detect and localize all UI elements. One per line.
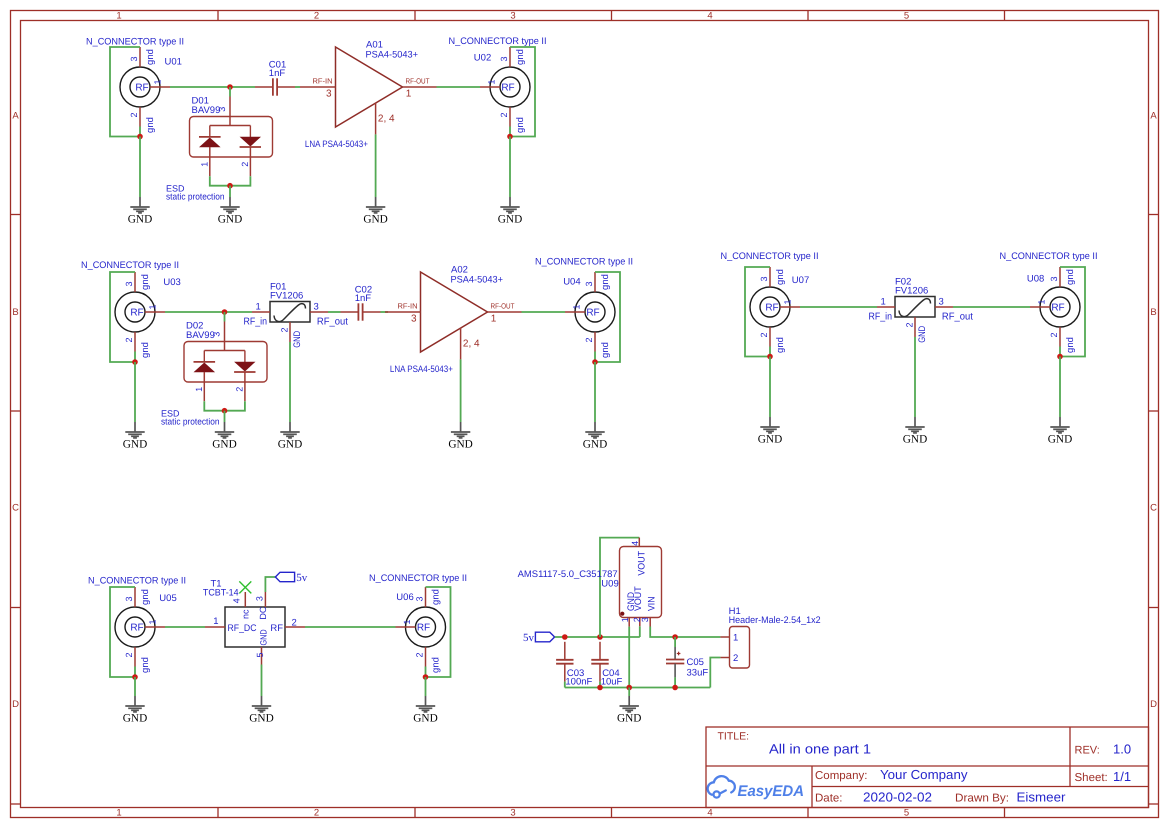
capacitor C01 (1nF) bbox=[255, 60, 295, 96]
svg-text:1: 1 bbox=[116, 11, 121, 22]
wire U03 to ground bbox=[134, 362, 136, 422]
svg-text:C: C bbox=[1150, 503, 1157, 514]
svg-text:static protection: static protection bbox=[161, 417, 220, 427]
svg-text:U07: U07 bbox=[792, 275, 809, 286]
wire U03 gnd loop bbox=[110, 272, 135, 362]
svg-text:RF-OUT: RF-OUT bbox=[406, 77, 430, 86]
svg-text:GND: GND bbox=[123, 712, 147, 724]
svg-text:gnd: gnd bbox=[600, 342, 611, 358]
svg-text:RF: RF bbox=[130, 623, 143, 634]
svg-text:1: 1 bbox=[148, 304, 158, 309]
svg-text:RF: RF bbox=[417, 623, 430, 634]
svg-text:A: A bbox=[1150, 111, 1157, 122]
svg-text:3: 3 bbox=[640, 617, 650, 622]
header H1 (Header-Male-2.54_1x2) bbox=[720, 606, 820, 668]
svg-text:GND: GND bbox=[258, 629, 268, 646]
svg-text:N_CONNECTOR type II: N_CONNECTOR type II bbox=[81, 260, 179, 271]
svg-text:1: 1 bbox=[881, 297, 886, 308]
ground A01 bbox=[363, 197, 387, 225]
svg-text:GND: GND bbox=[249, 712, 273, 724]
svg-text:1: 1 bbox=[213, 616, 218, 627]
svg-text:5v: 5v bbox=[296, 572, 308, 584]
svg-text:gnd: gnd bbox=[140, 589, 151, 605]
svg-text:2: 2 bbox=[129, 112, 139, 117]
svg-text:PSA4-5043+: PSA4-5043+ bbox=[451, 275, 504, 286]
wire D01 junction to ground bbox=[229, 186, 231, 197]
ground U02 bbox=[498, 197, 522, 225]
junction U04 pin2 node bbox=[592, 359, 598, 365]
net label ESD static protection bbox=[166, 184, 225, 202]
wire A01 pin2,4 to ground bbox=[375, 134, 377, 197]
svg-text:4: 4 bbox=[630, 541, 640, 546]
junction U09 GND bottom bbox=[626, 685, 632, 691]
wire C02 to A02 pin3 bbox=[381, 311, 389, 313]
svg-text:gnd: gnd bbox=[140, 342, 151, 358]
svg-text:1: 1 bbox=[1037, 299, 1047, 304]
ground T1 bbox=[249, 696, 273, 724]
svg-text:3: 3 bbox=[124, 596, 134, 601]
svg-text:gnd: gnd bbox=[775, 269, 786, 285]
svg-text:5: 5 bbox=[904, 808, 909, 819]
junction C03 top bbox=[562, 634, 568, 640]
svg-text:4: 4 bbox=[707, 11, 712, 22]
wire U05 to ground bbox=[134, 677, 136, 696]
svg-text:GND: GND bbox=[617, 712, 641, 724]
connector U02 (N_CONNECTOR type II) bbox=[449, 36, 547, 133]
svg-text:U06: U06 bbox=[396, 592, 413, 603]
svg-text:N_CONNECTOR type II: N_CONNECTOR type II bbox=[86, 37, 184, 48]
svg-text:33uF: 33uF bbox=[687, 668, 709, 679]
wire U02 to ground bbox=[509, 137, 511, 198]
svg-text:2: 2 bbox=[1049, 332, 1059, 337]
svg-text:3: 3 bbox=[415, 596, 425, 601]
svg-text:gnd: gnd bbox=[140, 274, 151, 290]
svg-text:FV1206: FV1206 bbox=[270, 291, 303, 302]
svg-text:C05: C05 bbox=[687, 657, 704, 668]
svg-text:U02: U02 bbox=[474, 53, 491, 64]
wire U05 pin1 to T1 bbox=[165, 626, 205, 628]
ground U08 bbox=[1048, 417, 1072, 445]
capacitor C03 (100nF) bbox=[556, 642, 592, 688]
connector U05 (N_CONNECTOR type II) bbox=[88, 576, 186, 673]
wire U05 gnd loop bbox=[110, 587, 135, 677]
svg-text:PSA4-5043+: PSA4-5043+ bbox=[366, 50, 419, 61]
svg-text:2, 4: 2, 4 bbox=[378, 114, 395, 125]
capacitor C05 (33uF polarized) bbox=[666, 647, 708, 679]
svg-text:FV1206: FV1206 bbox=[895, 286, 928, 297]
svg-text:RF_out: RF_out bbox=[317, 317, 348, 328]
svg-text:3: 3 bbox=[411, 314, 417, 325]
svg-text:1.0: 1.0 bbox=[1113, 742, 1131, 757]
fuse F02 (FV1206) bbox=[877, 277, 953, 343]
connector U04 (N_CONNECTOR type II) bbox=[535, 257, 633, 358]
svg-text:2: 2 bbox=[759, 332, 769, 337]
wire D01 bottom to junction bbox=[210, 176, 251, 186]
junction U02 pin2 node bbox=[507, 134, 513, 140]
svg-text:1: 1 bbox=[148, 619, 158, 624]
svg-text:TITLE:: TITLE: bbox=[718, 731, 750, 743]
wire A01 out to U02 bbox=[437, 86, 481, 88]
junction U05 pin2 node bbox=[132, 674, 138, 680]
svg-text:1: 1 bbox=[491, 314, 497, 325]
svg-text:GND: GND bbox=[903, 433, 927, 445]
svg-text:gnd: gnd bbox=[140, 657, 151, 673]
junction U07 pin2 node bbox=[767, 354, 773, 360]
svg-text:3: 3 bbox=[759, 276, 769, 281]
svg-text:2: 2 bbox=[499, 112, 509, 117]
wire C05 bottom bbox=[674, 677, 676, 687]
svg-text:gnd: gnd bbox=[145, 49, 156, 65]
junction D01 bottom bbox=[227, 183, 233, 189]
svg-text:1: 1 bbox=[783, 299, 793, 304]
svg-text:4: 4 bbox=[707, 808, 712, 819]
wire junction to D02 pin3 bbox=[224, 312, 226, 322]
svg-text:1: 1 bbox=[153, 79, 163, 84]
svg-text:1: 1 bbox=[402, 619, 412, 624]
wire U04 to ground bbox=[594, 362, 596, 422]
wire U01 gnd loop bbox=[110, 47, 140, 137]
svg-text:RF-IN: RF-IN bbox=[398, 302, 418, 311]
svg-text:U08: U08 bbox=[1027, 274, 1044, 285]
svg-text:gnd: gnd bbox=[431, 657, 442, 673]
svg-text:gnd: gnd bbox=[515, 49, 526, 65]
wire U01 pin1 to C01 bbox=[170, 86, 255, 88]
svg-text:D: D bbox=[12, 699, 19, 710]
svg-text:1: 1 bbox=[572, 304, 582, 309]
wire U09 pin2 (VOUT) to rail bbox=[639, 626, 641, 637]
wire U07 to ground bbox=[769, 357, 771, 418]
wire U01 to ground bbox=[139, 137, 141, 198]
svg-text:BAV99: BAV99 bbox=[186, 330, 215, 341]
wire A02 pin2,4 to ground bbox=[460, 359, 462, 422]
net label RF_in at F01 bbox=[244, 317, 268, 328]
svg-text:100nF: 100nF bbox=[565, 677, 592, 688]
svg-text:N_CONNECTOR type II: N_CONNECTOR type II bbox=[88, 576, 186, 587]
svg-text:2: 2 bbox=[733, 653, 738, 664]
svg-text:3: 3 bbox=[124, 281, 134, 286]
svg-text:U01: U01 bbox=[165, 57, 182, 68]
svg-text:GND: GND bbox=[758, 433, 782, 445]
net label ESD static protection 2 bbox=[161, 409, 220, 427]
svg-text:3: 3 bbox=[510, 808, 515, 819]
svg-text:GND: GND bbox=[123, 438, 147, 450]
power flag 5v at T1 bbox=[275, 572, 307, 584]
svg-text:2: 2 bbox=[124, 652, 134, 657]
svg-text:1nF: 1nF bbox=[269, 68, 286, 79]
fuse F01 (FV1206) bbox=[252, 282, 328, 348]
svg-text:gnd: gnd bbox=[1065, 337, 1076, 353]
svg-text:GND: GND bbox=[1048, 433, 1072, 445]
junction U03 pin2 node bbox=[132, 359, 138, 365]
junction C04 top / feedback bbox=[597, 634, 603, 640]
ground power section bbox=[617, 696, 641, 724]
svg-text:RF: RF bbox=[270, 623, 283, 634]
svg-text:1: 1 bbox=[733, 633, 738, 644]
svg-text:RF: RF bbox=[765, 303, 778, 314]
power flag 5v input bbox=[523, 632, 555, 644]
svg-text:A: A bbox=[12, 111, 19, 122]
svg-text:5: 5 bbox=[904, 11, 909, 22]
net label RF_out at F01 bbox=[317, 317, 348, 328]
svg-text:BAV99: BAV99 bbox=[192, 105, 221, 116]
svg-text:5v: 5v bbox=[523, 632, 535, 644]
wire 5v rail (VOUT side) bbox=[555, 636, 640, 638]
svg-text:2020-02-02: 2020-02-02 bbox=[863, 790, 932, 805]
wire F01 pin2 to ground bbox=[289, 342, 291, 422]
svg-text:Sheet:: Sheet: bbox=[1075, 772, 1108, 784]
wire U04 gnd loop bbox=[595, 272, 620, 362]
svg-text:GND: GND bbox=[448, 438, 472, 450]
connector U08 (N_CONNECTOR type II) bbox=[1000, 251, 1098, 353]
svg-text:3: 3 bbox=[1049, 276, 1059, 281]
wire U09 pin4 loop bbox=[600, 538, 639, 637]
title block bbox=[706, 727, 1149, 808]
svg-text:2: 2 bbox=[292, 618, 297, 629]
svg-text:1: 1 bbox=[194, 387, 204, 392]
wire U02 gnd loop bbox=[510, 47, 535, 137]
wire F02 pin2 to ground bbox=[914, 337, 916, 417]
svg-text:3: 3 bbox=[584, 281, 594, 286]
wire C05 top bbox=[674, 637, 676, 647]
wire U07 gnd loop bbox=[745, 267, 770, 357]
svg-text:3: 3 bbox=[939, 297, 944, 308]
wire U09 pin1 (GND) down bbox=[628, 627, 630, 688]
svg-text:REV:: REV: bbox=[1075, 745, 1100, 757]
wire junction to D01 pin3 bbox=[229, 87, 231, 97]
svg-text:GND: GND bbox=[413, 712, 437, 724]
svg-text:GND: GND bbox=[917, 326, 928, 343]
svg-text:2: 2 bbox=[240, 162, 250, 167]
wire T1 pin3 to 5v flag bbox=[265, 577, 275, 592]
diode D02 (BAV99 dual ESD diode) bbox=[184, 321, 267, 402]
connector U03 (N_CONNECTOR type II) bbox=[81, 260, 181, 358]
svg-text:U04: U04 bbox=[563, 277, 580, 288]
svg-text:3: 3 bbox=[326, 89, 332, 100]
svg-text:3: 3 bbox=[254, 596, 264, 601]
svg-text:1: 1 bbox=[620, 617, 630, 622]
svg-text:2: 2 bbox=[904, 322, 914, 327]
svg-text:RF_in: RF_in bbox=[244, 317, 268, 328]
svg-text:B: B bbox=[12, 307, 18, 318]
bias tee T1 (TCBT-14) bbox=[203, 579, 305, 665]
wire U08 gnd loop bbox=[1060, 267, 1085, 357]
svg-text:2: 2 bbox=[234, 387, 244, 392]
svg-text:3: 3 bbox=[499, 56, 509, 61]
svg-text:nc: nc bbox=[240, 609, 250, 619]
svg-text:Your Company: Your Company bbox=[880, 767, 968, 782]
ground F01 bbox=[278, 422, 302, 450]
svg-text:gnd: gnd bbox=[145, 117, 156, 133]
svg-text:gnd: gnd bbox=[431, 589, 442, 605]
ground U07 bbox=[758, 417, 782, 445]
svg-text:2: 2 bbox=[279, 327, 289, 332]
ground A02 bbox=[448, 422, 472, 450]
svg-text:3: 3 bbox=[129, 56, 139, 61]
svg-text:2: 2 bbox=[314, 11, 319, 22]
connector U01 (N_CONNECTOR type II) bbox=[86, 37, 184, 133]
net label RF_in at F02 bbox=[869, 312, 893, 323]
junction C05 top bbox=[672, 634, 678, 640]
wire U06 to ground bbox=[425, 677, 427, 696]
svg-text:RF_in: RF_in bbox=[869, 312, 893, 323]
junction U06 pin2 node bbox=[423, 674, 429, 680]
svg-text:EasyEDA: EasyEDA bbox=[738, 783, 805, 800]
svg-text:U03: U03 bbox=[163, 277, 180, 288]
svg-text:2, 4: 2, 4 bbox=[463, 339, 480, 350]
svg-text:N_CONNECTOR type II: N_CONNECTOR type II bbox=[449, 36, 547, 47]
junction C04 bottom bbox=[597, 685, 603, 691]
ground U01 bbox=[128, 197, 152, 225]
svg-text:GND: GND bbox=[292, 331, 303, 348]
svg-text:1: 1 bbox=[256, 302, 261, 313]
net label RF_out at F02 bbox=[942, 312, 973, 323]
svg-text:1: 1 bbox=[406, 89, 412, 100]
capacitor C02 (1nF) bbox=[341, 285, 381, 321]
svg-text:RF: RF bbox=[1051, 303, 1064, 314]
svg-text:VIN: VIN bbox=[646, 596, 657, 611]
svg-text:TCBT-14: TCBT-14 bbox=[203, 588, 239, 599]
svg-text:GND: GND bbox=[218, 213, 242, 225]
junction RF-IN node bbox=[227, 84, 233, 90]
junction D02 bottom bbox=[222, 408, 228, 414]
wire T1 pin5 to ground bbox=[261, 665, 263, 697]
ground U03 bbox=[123, 422, 147, 450]
wire U08 to ground bbox=[1059, 357, 1061, 418]
wire C03 bottom bbox=[564, 682, 566, 688]
wire U06 gnd loop bbox=[426, 587, 451, 677]
svg-text:GND: GND bbox=[128, 213, 152, 225]
svg-text:3: 3 bbox=[510, 11, 515, 22]
svg-text:gnd: gnd bbox=[600, 274, 611, 290]
svg-text:GND: GND bbox=[363, 213, 387, 225]
svg-text:U09: U09 bbox=[601, 579, 618, 590]
junction C05 bottom bbox=[672, 685, 678, 691]
no-connect flag T1 pin4 bbox=[239, 581, 251, 593]
capacitor C04 (10uF) bbox=[591, 642, 622, 688]
svg-text:C: C bbox=[12, 503, 19, 514]
svg-text:2: 2 bbox=[584, 337, 594, 342]
svg-text:1/1: 1/1 bbox=[1113, 769, 1131, 784]
wire D02 bottom to junction bbox=[204, 401, 245, 411]
connector U06 (N_CONNECTOR type II) bbox=[369, 573, 467, 673]
svg-text:GND: GND bbox=[278, 438, 302, 450]
svg-text:Eismeer: Eismeer bbox=[1017, 790, 1067, 805]
svg-text:LNA PSA4-5043+: LNA PSA4-5043+ bbox=[390, 364, 453, 374]
svg-text:RF: RF bbox=[135, 83, 148, 94]
svg-text:N_CONNECTOR type II: N_CONNECTOR type II bbox=[1000, 251, 1098, 262]
svg-text:1: 1 bbox=[116, 808, 121, 819]
svg-text:gnd: gnd bbox=[775, 337, 786, 353]
svg-text:RF_out: RF_out bbox=[942, 312, 973, 323]
svg-text:gnd: gnd bbox=[1065, 269, 1076, 285]
svg-text:Date:: Date: bbox=[815, 793, 843, 805]
wire U03 pin1 to F01 bbox=[165, 311, 252, 313]
svg-text:N_CONNECTOR type II: N_CONNECTOR type II bbox=[369, 573, 467, 584]
svg-text:D: D bbox=[1150, 699, 1157, 710]
svg-text:All in one part 1: All in one part 1 bbox=[769, 742, 871, 757]
svg-text:VOUT: VOUT bbox=[633, 586, 644, 611]
svg-text:GND: GND bbox=[498, 213, 522, 225]
junction U08 pin2 node bbox=[1057, 354, 1063, 360]
svg-text:4: 4 bbox=[232, 598, 242, 603]
svg-text:3: 3 bbox=[314, 302, 319, 313]
svg-text:DC: DC bbox=[258, 606, 268, 619]
wire F02 to U08 bbox=[953, 306, 1030, 308]
junction RF_in node bbox=[222, 309, 228, 315]
svg-text:1: 1 bbox=[487, 79, 497, 84]
svg-text:Company:: Company: bbox=[815, 770, 867, 782]
ground F02 bbox=[903, 417, 927, 445]
wire T1 pin2 to U06 bbox=[305, 626, 396, 628]
svg-text:U05: U05 bbox=[159, 593, 176, 604]
wire ground rail bbox=[565, 687, 711, 689]
svg-text:RF_DC: RF_DC bbox=[228, 623, 257, 634]
ground U04 bbox=[583, 422, 607, 450]
svg-text:2: 2 bbox=[415, 652, 425, 657]
svg-text:static protection: static protection bbox=[166, 192, 225, 202]
svg-text:Drawn By:: Drawn By: bbox=[955, 793, 1009, 805]
svg-text:RF-OUT: RF-OUT bbox=[491, 302, 515, 311]
ground U05 bbox=[123, 696, 147, 724]
wire U09 pin3 (VIN) rail bbox=[650, 627, 720, 638]
wire U07 pin1 to F02 bbox=[800, 306, 877, 308]
svg-text:N_CONNECTOR type II: N_CONNECTOR type II bbox=[535, 257, 633, 268]
regulator U09 (AMS1117-5.0) bbox=[518, 538, 662, 627]
connector U07 (N_CONNECTOR type II) bbox=[721, 251, 819, 353]
svg-text:VOUT: VOUT bbox=[637, 551, 648, 576]
wire D02 junction to ground bbox=[224, 411, 226, 422]
ground D01 bbox=[218, 197, 242, 225]
svg-text:Header-Male-2.54_1x2: Header-Male-2.54_1x2 bbox=[729, 615, 821, 626]
svg-text:RF: RF bbox=[130, 308, 143, 319]
ground U06 bbox=[413, 696, 437, 724]
svg-text:GND: GND bbox=[583, 438, 607, 450]
wire ground rail to ground symbol bbox=[628, 688, 630, 697]
svg-text:RF: RF bbox=[501, 83, 514, 94]
svg-text:N_CONNECTOR type II: N_CONNECTOR type II bbox=[721, 251, 819, 262]
svg-text:B: B bbox=[1150, 307, 1156, 318]
wire C04 bottom bbox=[599, 682, 601, 688]
diode D01 (BAV99 dual ESD diode) bbox=[190, 96, 273, 177]
wire H1 pin2 to ground rail bbox=[710, 658, 720, 688]
svg-text:RF: RF bbox=[586, 308, 599, 319]
wire C01 to A01 pin3 bbox=[295, 86, 300, 88]
amplifier A02 (PSA4-5043+ LNA) bbox=[385, 265, 522, 374]
wire F01 to C02 bbox=[328, 311, 341, 313]
svg-text:5: 5 bbox=[255, 652, 265, 657]
svg-text:2: 2 bbox=[124, 337, 134, 342]
svg-text:RF-IN: RF-IN bbox=[313, 77, 333, 86]
svg-text:2: 2 bbox=[314, 808, 319, 819]
svg-text:gnd: gnd bbox=[515, 117, 526, 133]
ground D02 bbox=[212, 422, 236, 450]
svg-text:10uF: 10uF bbox=[601, 677, 623, 688]
svg-text:1nF: 1nF bbox=[355, 293, 372, 304]
junction U01 pin2 node bbox=[137, 134, 143, 140]
wire A02 out to U04 bbox=[522, 311, 566, 313]
svg-text:GND: GND bbox=[212, 438, 236, 450]
amplifier A01 (PSA4-5043+ LNA) bbox=[300, 40, 437, 149]
svg-text:1: 1 bbox=[199, 162, 209, 167]
EasyEDA logo bbox=[708, 776, 804, 800]
svg-text:LNA PSA4-5043+: LNA PSA4-5043+ bbox=[305, 139, 368, 149]
